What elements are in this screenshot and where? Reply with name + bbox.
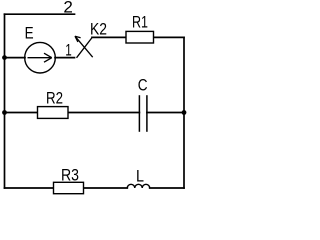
wire E row: left vertical to source E — [5, 57, 26, 59]
wire capacitor C to right vertical — [147, 112, 184, 114]
switch arrowhead — [75, 36, 81, 42]
switch arm (contact 1 to pivot) — [77, 38, 93, 58]
svg-text:1: 1 — [65, 41, 72, 59]
svg-text:E: E — [25, 24, 34, 42]
wire middle row: left vertical to R2 — [5, 112, 38, 114]
wire R3 to inductor L — [84, 187, 128, 189]
wire switch pivot to R1 — [92, 36, 126, 38]
inductor L — [127, 184, 149, 188]
svg-text:R1: R1 — [132, 13, 148, 31]
wire source E to contact 1 — [55, 57, 75, 59]
junction dot right at middle row — [182, 110, 187, 115]
wire right vertical — [183, 37, 185, 188]
resistor R1 — [126, 31, 154, 43]
svg-text:R2: R2 — [46, 90, 63, 108]
resistor R3 — [54, 182, 84, 193]
wire bottom row: left vertical to R3 — [5, 187, 54, 189]
svg-text:L: L — [136, 168, 144, 186]
wire inductor L to right vertical — [150, 187, 184, 189]
capacitor C — [139, 95, 147, 132]
wire top horizontal (to contact 2) — [5, 13, 75, 15]
wire left vertical — [4, 14, 6, 188]
svg-text:K2: K2 — [90, 21, 107, 39]
wire R1 to right vertical — [154, 36, 185, 38]
svg-text:R3: R3 — [61, 166, 79, 184]
switch motion arrow shaft — [75, 36, 93, 57]
svg-text:2: 2 — [63, 0, 73, 17]
resistor R2 — [38, 107, 69, 119]
source E (circle with right arrow) — [25, 42, 56, 73]
switch K2 — [75, 36, 93, 58]
junction dot left at E row — [2, 55, 7, 60]
svg-text:C: C — [138, 76, 148, 94]
junction dot left at middle row — [2, 110, 7, 115]
wire R2 to capacitor C — [68, 112, 139, 114]
